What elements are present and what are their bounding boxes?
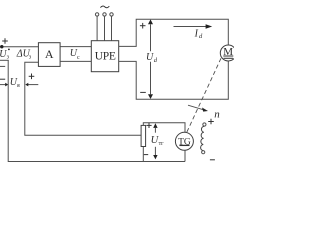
arrow U_ya left [0, 83, 8, 87]
wire left feedback vertical [8, 60, 185, 161]
plus sign of field coil [208, 119, 214, 125]
wire A to UPE lower [60, 60, 91, 62]
minus sign of field coil [210, 159, 215, 161]
svg-text:я: я [17, 83, 20, 89]
minus sign of U_ya left [0, 78, 5, 80]
voltage arrow U_d [148, 19, 153, 99]
terminal circle phase 3 [110, 13, 113, 16]
tachogenerator loop bottom wire left [142, 147, 144, 162]
label U_c control voltage [70, 48, 80, 61]
wire three-phase line 1 [96, 16, 98, 41]
wire three-phase line 2 [104, 16, 106, 41]
wire UPE plus output to top rail [119, 19, 229, 46]
wire A to UPE upper [60, 46, 91, 48]
svg-text:I: I [194, 28, 199, 39]
battery plate short (reference source) [0, 65, 5, 67]
minus sign of U_d bottom [140, 91, 146, 93]
wire inner feedback (divider tap) [25, 62, 141, 135]
svg-text:тг: тг [159, 141, 165, 147]
field coil terminal circle bottom [202, 151, 205, 154]
svg-text:A: A [45, 47, 54, 61]
tachogenerator TG underline bar [179, 144, 189, 146]
motor M underline bar 1 [223, 55, 233, 57]
label U_tg tachogenerator voltage [151, 135, 165, 147]
wire input line to A [0, 46, 38, 48]
resistor divider [141, 125, 146, 146]
label U*_z reference voltage [0, 49, 10, 61]
plus sign of reference input [2, 38, 8, 44]
tachogenerator TG circle [175, 132, 193, 150]
svg-text:n: n [214, 108, 220, 120]
tachogenerator loop top wire [143, 123, 185, 133]
speed arrow n [188, 105, 208, 111]
minus sign of U_tg [144, 154, 148, 156]
field coil terminal circle top [203, 123, 206, 126]
field coil winding [201, 126, 205, 150]
terminal circle phase 2 [103, 13, 106, 16]
label delta U_z error voltage [16, 48, 32, 60]
wire three-phase line 3 [111, 16, 113, 41]
label U_d converter output voltage [146, 52, 158, 64]
plus sign of U_tg [146, 123, 151, 128]
motor M underline bar 2 [224, 57, 233, 59]
svg-text:с: с [77, 55, 80, 61]
svg-text:M: M [223, 46, 233, 58]
battery plate long (reference source) [0, 59, 9, 61]
tachogenerator loop bottom wire right [184, 150, 186, 161]
wire UPE minus output to bottom rail [119, 61, 229, 99]
node input node dot [0, 45, 3, 48]
label U_ya feedback voltage [10, 77, 20, 89]
shaft dashed line [187, 58, 221, 132]
plus sign of U_ya right [29, 74, 35, 80]
ac tilde symbol [100, 6, 109, 8]
voltage arrow U_tg [153, 123, 157, 159]
converter UPE box [91, 41, 118, 72]
svg-text:UPE: UPE [95, 50, 116, 62]
terminal circle phase 1 [95, 13, 98, 16]
plus sign of U_d top [140, 23, 146, 29]
arrow U_ya right [25, 83, 38, 87]
amplifier A box [38, 43, 60, 67]
label I_d armature current [194, 28, 203, 40]
motor M circle [220, 45, 236, 61]
svg-text:U: U [146, 52, 154, 63]
svg-text:TG: TG [178, 137, 191, 147]
current arrow I_d [174, 24, 213, 28]
